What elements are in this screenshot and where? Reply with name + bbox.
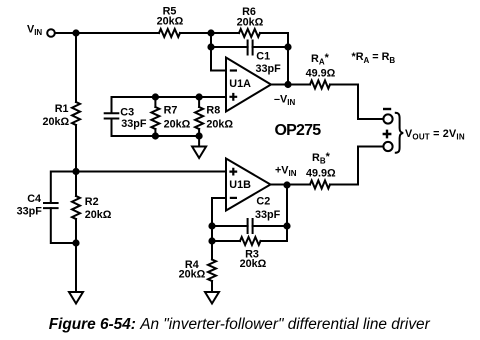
wire: VIN node down to R1	[75, 33, 77, 102]
svg-text:C1: C1	[256, 50, 270, 62]
node: R5 / R6 / inverting input junction	[207, 29, 214, 36]
wire: U1A output to RA	[271, 84, 310, 86]
node: VIN / R1 / R5 junction	[72, 29, 79, 36]
U1B noninverting input plus sign	[229, 168, 237, 176]
output plus polarity sign	[383, 130, 392, 139]
node: C2 left junction	[208, 222, 215, 229]
wire: R4 to ground	[211, 281, 213, 292]
wire: R3 left lead	[212, 240, 240, 242]
svg-text:20kΩ: 20kΩ	[240, 258, 267, 270]
ground (below R8)	[192, 147, 206, 159]
svg-text:20kΩ: 20kΩ	[43, 116, 70, 128]
svg-text:20kΩ: 20kΩ	[157, 16, 184, 28]
wire: R7 top lead	[154, 97, 156, 107]
svg-text:20kΩ: 20kΩ	[85, 209, 112, 221]
wire: R6 to right corner, down to C1 node	[260, 33, 288, 47]
output minus polarity sign	[383, 108, 391, 110]
wire: U1B output to RB	[271, 184, 311, 186]
wire: C1 left lead	[211, 46, 248, 48]
resistor R3	[240, 237, 261, 245]
input terminal circle (VIN)	[47, 29, 55, 37]
node: U1A output junction	[284, 81, 291, 88]
node: R8 bottom junction	[196, 132, 203, 139]
wire: U1B output node down to feedback	[286, 185, 288, 226]
ground (below R4)	[205, 292, 219, 304]
wire: R4 top lead	[211, 241, 213, 260]
wire: U1A noninverting input rail	[112, 96, 227, 98]
resistor R7	[151, 107, 159, 129]
output brace	[395, 113, 403, 153]
wire: R8 node to ground	[198, 136, 200, 147]
svg-text:C3: C3	[120, 107, 134, 119]
svg-text:20kΩ: 20kΩ	[237, 16, 264, 28]
svg-text:C2: C2	[256, 195, 270, 207]
output terminal circle (minus)	[383, 114, 392, 123]
svg-text:OP275: OP275	[275, 122, 322, 139]
node: R2 / C4 bottom junction	[72, 239, 79, 246]
svg-text:33pF: 33pF	[255, 209, 281, 221]
wire: RB to bottom output terminal	[330, 147, 383, 185]
resistor R8	[195, 107, 203, 129]
wire: center node to U1B noninverting input	[76, 171, 226, 173]
node: R3 / R4 junction	[208, 237, 215, 244]
node: R7 bottom junction	[152, 132, 159, 139]
resistor R2	[72, 196, 80, 219]
wire: R8 bottom lead	[198, 129, 200, 136]
resistor R1	[72, 102, 80, 125]
svg-text:R1: R1	[55, 103, 69, 115]
ground (below R2 / input divider)	[69, 292, 83, 304]
svg-text:33pF: 33pF	[17, 206, 43, 218]
wire: C4 bottom lead to bottom node	[51, 208, 76, 243]
svg-text:33pF: 33pF	[121, 118, 147, 130]
svg-text:20kΩ: 20kΩ	[164, 119, 191, 131]
wire: C4 top lead from center node	[51, 172, 76, 204]
svg-text:33pF: 33pF	[256, 63, 282, 75]
svg-text:20kΩ: 20kΩ	[179, 268, 206, 280]
op-amp U1A	[226, 58, 271, 112]
wire: C3 bottom lead	[111, 119, 113, 137]
node: R1 / R2 / C4 / U1B+ junction	[72, 168, 79, 175]
svg-text:R8: R8	[206, 104, 220, 116]
svg-text:R2: R2	[85, 196, 99, 208]
svg-text:Figure 6-54: An "inverter-foll: Figure 6-54: An "inverter-follower" diff…	[49, 316, 431, 333]
U1A noninverting input plus sign	[229, 93, 237, 101]
wire: R1 to center node	[75, 125, 77, 172]
svg-text:U1B: U1B	[229, 179, 251, 191]
node: C1 left junction	[207, 43, 214, 50]
node: C2 right junction	[283, 222, 290, 229]
U1A inverting input minus sign	[230, 69, 237, 71]
capacitor C1	[248, 41, 253, 55]
wire: C3 top lead	[111, 97, 113, 113]
output terminal circle (plus)	[383, 142, 392, 151]
wire: VIN terminal to top rail junction	[55, 32, 159, 34]
node: R8 top junction	[196, 93, 203, 100]
node: C1 / R6 right junction	[284, 43, 291, 50]
resistor R6	[239, 29, 260, 37]
svg-text:C4: C4	[27, 193, 41, 205]
U1B inverting input minus sign	[230, 197, 237, 199]
wire: R8 top lead	[198, 97, 200, 107]
resistor R4	[208, 260, 216, 282]
wire: R7 bottom lead	[154, 129, 156, 136]
resistor RB 49.9 ohm	[310, 181, 330, 189]
capacitor C2	[248, 219, 253, 233]
svg-text:R7: R7	[164, 104, 178, 116]
svg-text:U1A: U1A	[229, 78, 251, 90]
wire: C1 node down to U1A output node	[287, 47, 289, 85]
wire: RA to top output terminal	[330, 85, 383, 120]
node: R7 top junction	[152, 93, 159, 100]
wire: R3 right lead up to C2 node	[261, 226, 288, 241]
node: U1B output junction	[283, 181, 290, 188]
wire: R2 to bottom node	[75, 219, 77, 243]
wire: U1B inverting input stub	[212, 198, 226, 241]
resistor RA 49.9 ohm	[310, 81, 330, 89]
svg-text:*RA = RB: *RA = RB	[352, 51, 396, 65]
wire: C2 right lead	[253, 225, 287, 227]
wire: R5 to node at R6 input	[180, 32, 239, 34]
resistor R5	[159, 29, 180, 37]
svg-text:20kΩ: 20kΩ	[206, 119, 233, 131]
wire: C2 left lead	[212, 225, 248, 227]
wire: center node to R2	[75, 172, 77, 197]
wire: feedback node down from top rail to inverting input	[211, 33, 226, 71]
svg-text:49.9Ω: 49.9Ω	[306, 68, 336, 80]
wire: C1 right lead	[253, 46, 288, 48]
wire: bottom rail C3-R7-R8	[112, 135, 200, 137]
wire: bottom node to ground	[75, 243, 77, 292]
capacitor C3	[105, 113, 119, 118]
capacitor C4	[44, 203, 58, 208]
svg-text:49.9Ω: 49.9Ω	[306, 168, 336, 180]
op-amp U1B	[226, 159, 271, 211]
